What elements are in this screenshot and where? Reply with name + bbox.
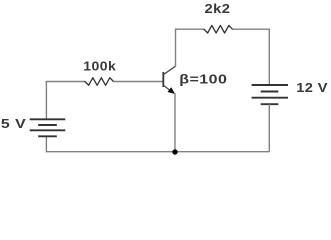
resistor 2k2 zigzag [204,25,233,33]
wire: emitter vertical down to bottom row [174,93,176,152]
transistor Q1 (NPN) base bar [162,72,164,87]
wire: bottom row from right corner to 5V battery [46,137,269,152]
battery V2 12V: plate short [261,91,279,93]
resistor 100k zigzag [85,78,114,86]
wire: collector vertical up to top row [175,29,177,66]
label 12 V [296,80,328,94]
svg-text:100k: 100k [83,59,116,73]
transistor Q1 collector slant [163,66,175,75]
wire: top row left segment to 2k2 [175,28,204,30]
junction node dot [172,149,177,154]
battery V1 5V: plate short bottom [38,135,57,137]
wire: top row right segment from 2k2 to right corner and down to 12V battery [233,29,270,85]
label 2k2 [205,1,231,16]
wire: base row right segment from 100k to transistor base [114,81,163,83]
battery V2 12V: plate short bottom [261,103,279,105]
battery V1 5V: plate short [38,124,57,126]
wire: from 12V battery bottom down to bottom row [268,104,270,152]
svg-text:2k2: 2k2 [205,1,231,16]
label beta=100 [179,73,227,87]
svg-text:12 V: 12 V [296,80,328,94]
battery V1 5V: plate long top [30,118,66,120]
wire: base row left segment to 100k resistor [46,81,85,83]
svg-text:5 V: 5 V [1,117,26,131]
battery V1 5V: plate long [30,129,66,131]
transistor Q1 emitter slant with arrow [163,85,174,94]
label 5 V [1,117,26,131]
svg-text:β=100: β=100 [179,73,227,87]
battery V2 12V: plate long [252,97,288,99]
label 100k [83,59,116,73]
wire: left vertical from 5V battery top up to base row [45,81,47,119]
battery V2 12V: plate long top [252,84,288,86]
